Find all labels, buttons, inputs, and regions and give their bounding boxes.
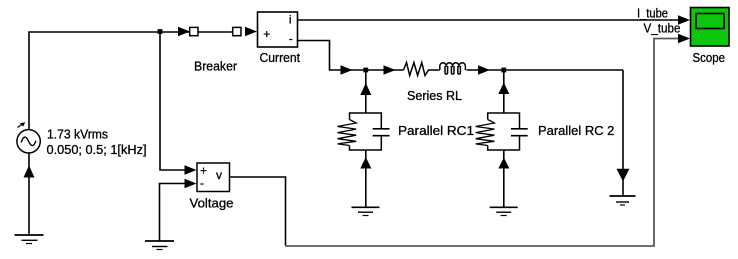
svg-text:Parallel RC 2: Parallel RC 2 xyxy=(538,123,614,138)
svg-text:+: + xyxy=(263,27,270,41)
svg-text:v: v xyxy=(216,168,222,182)
svg-text:Parallel RC1: Parallel RC1 xyxy=(398,123,474,138)
svg-text:0.050; 0.5; 1[kHz]: 0.050; 0.5; 1[kHz] xyxy=(47,142,147,157)
svg-text:1.73 kVrms: 1.73 kVrms xyxy=(47,127,108,142)
svg-text:I_tube: I_tube xyxy=(637,5,668,20)
svg-text:-: - xyxy=(200,176,204,190)
svg-text:Voltage: Voltage xyxy=(190,196,234,211)
svg-text:V_tube: V_tube xyxy=(644,21,681,36)
svg-text:-: - xyxy=(289,31,293,45)
svg-text:Scope: Scope xyxy=(693,50,726,65)
svg-text:Current: Current xyxy=(260,50,301,65)
svg-text:Series RL: Series RL xyxy=(407,88,462,103)
svg-text:Breaker: Breaker xyxy=(194,59,238,74)
svg-text:i: i xyxy=(289,13,292,27)
